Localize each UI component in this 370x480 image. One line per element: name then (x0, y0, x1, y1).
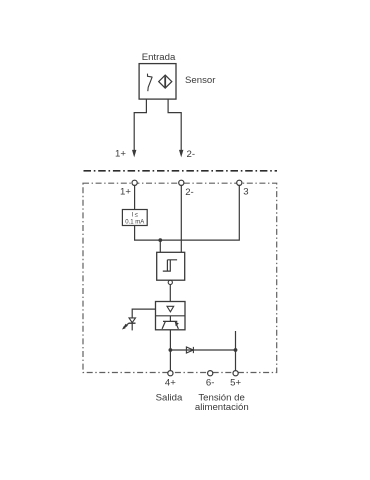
svg-text:Salida: Salida (156, 393, 183, 404)
svg-text:Entrada: Entrada (142, 52, 176, 63)
svg-text:5+: 5+ (230, 377, 241, 388)
wire trigger to output stage (169, 285, 171, 302)
output stage divider (156, 315, 186, 317)
terminal 1+ (132, 180, 137, 185)
divider line hazardous/safe area (84, 170, 278, 172)
LED light arrows (122, 323, 129, 330)
supply junction (234, 348, 238, 352)
LED stub (131, 323, 133, 330)
junction at output (169, 348, 173, 352)
svg-text:1+: 1+ (115, 149, 126, 160)
wire output stage to terminal 4+ (169, 330, 171, 371)
wire to LED (132, 309, 155, 318)
NAMUR sensor symbol (159, 75, 172, 88)
terminal 5+ (233, 371, 238, 376)
Schmitt trigger box (157, 252, 185, 280)
svg-text:6-: 6- (206, 377, 215, 388)
output stage box (156, 302, 186, 330)
wire junction to supply node (170, 349, 235, 351)
arrow 1+ (132, 150, 136, 158)
switch contact symbol (148, 74, 153, 92)
svg-text:3: 3 (243, 187, 248, 198)
wire current limiter to node row (135, 226, 161, 241)
supply stub up (235, 331, 237, 350)
svg-text:1+: 1+ (120, 187, 131, 198)
junction node (158, 238, 162, 242)
diode D1 (186, 347, 193, 353)
svg-text:2-: 2- (185, 187, 194, 198)
wire node to trigger (159, 240, 161, 252)
wire terminal 1+ to current limiter (134, 185, 136, 209)
LED diode (129, 318, 136, 323)
wire sensor right to field terminal 2- (168, 99, 181, 150)
trigger output circle (168, 280, 172, 284)
terminal 4+ (168, 371, 173, 376)
current limiter box (122, 210, 147, 226)
terminal 3 (237, 180, 242, 185)
wire node row to terminal 3 (160, 185, 239, 240)
svg-text:I ≤: I ≤ (131, 212, 138, 218)
sensor box (139, 64, 176, 100)
terminal 6- (208, 371, 213, 376)
svg-text:0.1 mA: 0.1 mA (125, 219, 144, 225)
svg-text:alimentación: alimentación (195, 402, 249, 413)
amplifier triangle (167, 306, 174, 312)
wire supply node to terminal 5+ (235, 350, 237, 371)
transistor symbol (162, 316, 178, 329)
wire terminal 2- to trigger (180, 185, 182, 252)
svg-text:2-: 2- (187, 149, 196, 160)
svg-text:Sensor: Sensor (185, 75, 216, 86)
hysteresis symbol (163, 260, 177, 271)
svg-text:4+: 4+ (165, 377, 176, 388)
terminal 2- (179, 180, 184, 185)
arrow 2- (179, 150, 183, 158)
device enclosure dash-dot box (83, 183, 277, 372)
wire sensor left to field terminal 1+ (134, 99, 146, 150)
